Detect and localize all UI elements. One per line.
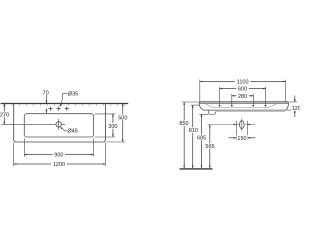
- drain cross vertical: [58, 119, 60, 130]
- underside line: [216, 111, 285, 113]
- basin bottom edge front: [203, 109, 286, 111]
- dim900 ext left: [23, 138, 25, 157]
- dim600 text: [236, 86, 249, 92]
- fixing dot 1: [219, 105, 221, 107]
- dim900 text: [53, 152, 66, 158]
- bowl outline: [24, 114, 93, 137]
- dim1200 ext left: [13, 143, 15, 166]
- dim600 line: [220, 88, 266, 90]
- dim850 text: [178, 120, 189, 126]
- wall hatch ticks: [5, 104, 125, 105]
- basin left end front: [199, 102, 203, 110]
- leader dia45: [61, 127, 67, 131]
- wall line plan view: [1, 103, 129, 105]
- svg-text:810: 810: [189, 128, 198, 134]
- drain outlet ellipse: [240, 121, 245, 129]
- basin top edge front: [199, 101, 288, 103]
- dim280 ext: [231, 94, 233, 105]
- dim300 text: [107, 123, 118, 129]
- dim500 line: [122, 104, 124, 143]
- tap hole cross 3: [65, 107, 69, 111]
- dim810 ext: [191, 104, 199, 106]
- dim280 text: [236, 93, 249, 99]
- dim850 ext: [182, 101, 199, 103]
- basin rim line front: [200, 103, 289, 105]
- dim1100 text: [235, 79, 251, 85]
- dim270 text: [0, 112, 10, 118]
- drain centerline arrows: [234, 124, 237, 126]
- dim810 text: [188, 127, 199, 133]
- bowl section bottom: [213, 107, 268, 109]
- basin right end front: [286, 102, 288, 110]
- dim120 line: [294, 96, 296, 102]
- svg-text:120: 120: [292, 106, 300, 112]
- dim850 line: [183, 102, 185, 168]
- fixing dot 2: [231, 105, 233, 107]
- leader dia35: [60, 94, 67, 106]
- svg-text:600: 600: [238, 87, 247, 93]
- drain outlet axis: [241, 119, 243, 132]
- bowl section right wall: [268, 104, 277, 108]
- dim500 ext bottom: [107, 141, 126, 143]
- svg-text:Ø45: Ø45: [67, 128, 77, 134]
- tap hole cross 1: [49, 107, 53, 111]
- dim280 line: [232, 95, 254, 97]
- dim1200 ext right: [104, 143, 106, 166]
- svg-text:900: 900: [54, 153, 63, 159]
- svg-text:850: 850: [179, 121, 188, 127]
- dim565 text: [204, 143, 215, 149]
- dim150 text: [236, 135, 247, 141]
- dim270 ext to drain: [2, 123, 65, 125]
- floor line: [180, 168, 213, 170]
- svg-text:300: 300: [108, 124, 117, 130]
- svg-text:150: 150: [237, 136, 246, 142]
- fixing dot 4: [265, 105, 267, 107]
- dim600 ext: [219, 87, 221, 105]
- dim565 line: [209, 124, 211, 168]
- svg-text:280: 280: [238, 94, 247, 100]
- dim685 line: [201, 114, 203, 168]
- dim150 line: [229, 137, 237, 139]
- dim500 text: [117, 115, 128, 121]
- dim900 line: [24, 154, 93, 156]
- svg-text:1200: 1200: [53, 162, 65, 168]
- bowl section left wall: [206, 104, 214, 108]
- dim300 ext top: [95, 113, 115, 115]
- dim685 text: [196, 135, 207, 141]
- dim810 line: [192, 105, 194, 168]
- svg-text:565: 565: [205, 144, 214, 150]
- svg-text:Ø35: Ø35: [68, 92, 78, 98]
- dim120 text: [291, 105, 302, 111]
- basin outline plan: [14, 104, 106, 143]
- dim1100 ext: [199, 80, 201, 102]
- underside recess bump: [208, 110, 215, 114]
- dim120 ext: [289, 101, 297, 103]
- dim900 ext right: [93, 138, 95, 157]
- svg-text:500: 500: [118, 115, 127, 121]
- svg-text:1100: 1100: [237, 79, 249, 85]
- dim300 line: [112, 114, 114, 137]
- drain centerline: [208, 123, 256, 125]
- dim1200 line: [14, 163, 106, 165]
- dim1100 line: [200, 81, 286, 83]
- dim685 ext: [199, 113, 208, 115]
- dim300 ext bottom: [95, 136, 115, 138]
- svg-text:70: 70: [43, 90, 49, 96]
- svg-text:685: 685: [197, 136, 206, 142]
- drain ext verticals: [235, 121, 237, 140]
- fixing dot 3: [252, 105, 254, 107]
- tap hole cross 2: [57, 107, 61, 111]
- drain circle: [56, 122, 61, 127]
- dim270 line: [3, 104, 5, 125]
- svg-text:270: 270: [0, 112, 9, 118]
- dim 70 lines: [46, 95, 48, 104]
- dim1200 text: [51, 161, 66, 167]
